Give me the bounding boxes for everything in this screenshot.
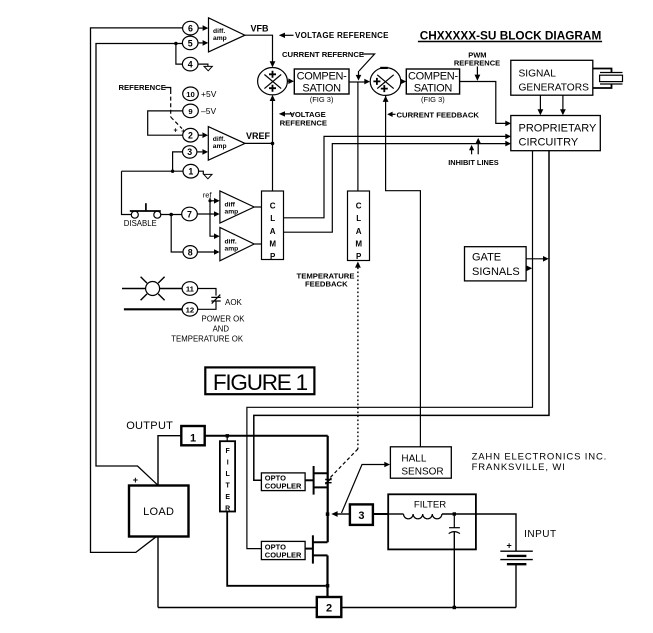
svg-text:9: 9: [188, 107, 192, 116]
svg-text:A: A: [356, 227, 362, 236]
svg-text:diff.: diff.: [225, 238, 237, 245]
svg-text:(FIG 3): (FIG 3): [421, 95, 445, 104]
svg-text:CURRENT REFERNCE: CURRENT REFERNCE: [282, 50, 364, 59]
svg-text:CURRENT FEEDBACK: CURRENT FEEDBACK: [397, 110, 480, 119]
svg-text:diff.: diff.: [213, 136, 225, 143]
svg-text:ref: ref: [203, 190, 213, 199]
svg-text:5: 5: [188, 38, 193, 48]
svg-text:12: 12: [186, 305, 195, 314]
svg-text:diff.: diff.: [213, 28, 225, 35]
svg-text:INHIBIT LINES: INHIBIT LINES: [448, 158, 499, 167]
svg-text:FRANKSVILLE, WI: FRANKSVILLE, WI: [472, 462, 566, 473]
svg-text:R: R: [225, 506, 230, 513]
svg-text:diff: diff: [225, 201, 236, 208]
svg-text:F: F: [226, 448, 231, 455]
svg-text:I: I: [227, 460, 229, 467]
svg-text:M: M: [269, 239, 276, 248]
svg-text:2: 2: [188, 131, 193, 141]
svg-text:A: A: [270, 227, 276, 236]
svg-text:11: 11: [186, 285, 195, 294]
svg-text:DISABLE: DISABLE: [124, 219, 157, 228]
svg-text:ZAHN ELECTRONICS INC.: ZAHN ELECTRONICS INC.: [472, 451, 608, 462]
svg-text:REFERENCE: REFERENCE: [119, 83, 166, 92]
svg-text:+: +: [133, 475, 138, 485]
svg-text:GENERATORS: GENERATORS: [519, 83, 590, 94]
svg-text:COUPLER: COUPLER: [265, 482, 302, 491]
svg-text:(FIG 3): (FIG 3): [310, 95, 334, 104]
svg-text:COMPEN-: COMPEN-: [297, 70, 347, 82]
svg-text:6: 6: [188, 24, 193, 34]
svg-text:CIRCUITRY: CIRCUITRY: [519, 137, 579, 149]
svg-text:REFERENCE: REFERENCE: [454, 58, 500, 67]
svg-text:INPUT: INPUT: [524, 529, 557, 540]
svg-text:POWER OK: POWER OK: [202, 315, 246, 324]
svg-text:M: M: [355, 239, 362, 248]
svg-text:VOLTAGE REFERENCE: VOLTAGE REFERENCE: [295, 31, 389, 40]
svg-text:SENSOR: SENSOR: [401, 467, 443, 478]
svg-text:+: +: [181, 129, 185, 136]
svg-text:CHXXXXX-SU BLOCK DIAGRAM: CHXXXXX-SU BLOCK DIAGRAM: [420, 28, 602, 42]
svg-text:SATION: SATION: [302, 82, 341, 94]
svg-text:8: 8: [188, 247, 193, 257]
svg-text:L: L: [226, 471, 231, 478]
svg-text:3: 3: [187, 147, 192, 157]
svg-text:GATE: GATE: [472, 251, 501, 263]
svg-text:PROPRIETARY: PROPRIETARY: [519, 123, 597, 135]
svg-text:+5V: +5V: [201, 89, 217, 99]
svg-text:TEMPERATURE OK: TEMPERATURE OK: [171, 335, 244, 344]
svg-text:COUPLER: COUPLER: [265, 550, 302, 559]
svg-text:3: 3: [358, 510, 364, 522]
svg-text:amp: amp: [213, 143, 227, 150]
svg-text:E: E: [225, 494, 230, 501]
svg-text:AOK: AOK: [225, 298, 243, 307]
svg-text:LOAD: LOAD: [143, 506, 174, 518]
svg-text:+: +: [174, 127, 178, 134]
svg-text:amp: amp: [225, 245, 239, 252]
svg-text:P: P: [270, 252, 276, 261]
svg-text:HALL: HALL: [401, 454, 426, 465]
svg-text:C: C: [270, 202, 276, 211]
svg-text:AND: AND: [213, 325, 230, 334]
svg-text:P: P: [356, 252, 362, 261]
svg-text:REFERENCE: REFERENCE: [280, 118, 327, 127]
svg-text:FEEDBACK: FEEDBACK: [305, 280, 348, 289]
svg-text:L: L: [270, 214, 275, 223]
svg-text:amp: amp: [213, 35, 227, 42]
svg-text:–5V: –5V: [201, 106, 216, 116]
svg-text:10: 10: [186, 90, 195, 99]
svg-text:SATION: SATION: [414, 82, 453, 94]
svg-text:2: 2: [326, 603, 332, 615]
svg-text:7: 7: [187, 209, 192, 219]
svg-text:4: 4: [188, 60, 193, 70]
svg-text:C: C: [356, 202, 362, 211]
svg-text:VREF: VREF: [246, 131, 271, 141]
svg-text:COMPEN-: COMPEN-: [408, 70, 458, 82]
svg-text:L: L: [356, 214, 361, 223]
svg-text:T: T: [226, 483, 231, 490]
svg-text:1: 1: [190, 433, 196, 445]
svg-text:SIGNAL: SIGNAL: [519, 69, 557, 80]
svg-text:1: 1: [188, 167, 193, 177]
svg-text:OUTPUT: OUTPUT: [126, 420, 173, 432]
svg-text:FILTER: FILTER: [414, 499, 446, 510]
svg-text:amp: amp: [225, 208, 239, 215]
svg-text:VFB: VFB: [251, 24, 270, 34]
svg-text:+: +: [507, 541, 512, 551]
svg-text:SIGNALS: SIGNALS: [472, 266, 520, 278]
svg-text:FIGURE 1: FIGURE 1: [213, 370, 308, 395]
